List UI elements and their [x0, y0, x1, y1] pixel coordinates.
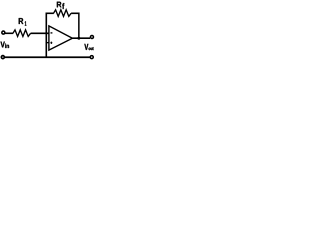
wire op-amp output — [72, 37, 90, 39]
wire non-inverting input stub — [46, 42, 49, 44]
terminal common bottom-left — [1, 56, 4, 59]
label R1 — [19, 18, 24, 24]
label Vin — [1, 42, 5, 48]
terminal common bottom-right — [90, 56, 93, 59]
op-amp inverting input mark (-) — [51, 32, 53, 34]
terminal Vin (input signal port) — [2, 31, 5, 34]
resistor Rf — [54, 10, 72, 17]
terminal Vout (output signal port) — [90, 36, 93, 39]
label Vout — [84, 44, 88, 50]
wire Vin terminal to R1 — [5, 32, 13, 34]
wire R1 to inverting input — [31, 32, 49, 34]
op-amp non-inverting input mark (+) — [50, 42, 52, 44]
wire top feedback left segment — [46, 12, 54, 14]
wire feedback vertical down to output node — [78, 13, 80, 39]
node junction at output — [77, 37, 80, 40]
node junction at inverting input — [45, 32, 47, 34]
wire vertical branch (feedback tap / non-inverting ground) — [45, 13, 47, 57]
op-amp U1 — [49, 26, 73, 50]
wire bottom rail — [5, 56, 90, 58]
resistor R1 — [13, 30, 31, 37]
wire top feedback right segment — [71, 12, 79, 14]
label Rf — [57, 2, 62, 8]
